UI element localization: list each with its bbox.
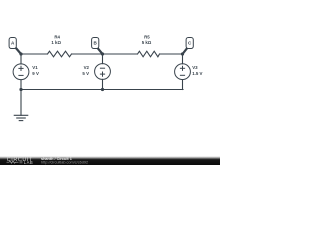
junction dot node A — [19, 52, 22, 55]
wire V3 to bottom rail — [182, 80, 184, 90]
svg-text:LAB: LAB — [24, 160, 33, 165]
node A flag — [9, 38, 21, 55]
CircuitLab logo LAB — [20, 161, 23, 164]
ground — [14, 115, 29, 120]
svg-text:5 V: 5 V — [82, 71, 89, 76]
svg-text:R4: R4 — [54, 34, 60, 39]
wire B to R5 — [103, 53, 138, 55]
label R4 1 kOhm — [51, 34, 61, 45]
wire A down to V1 — [20, 54, 22, 64]
junction dot node B — [101, 52, 104, 55]
wire R5 to C — [160, 53, 183, 55]
label V1 value 9 V — [32, 65, 39, 76]
wire B down to V2 — [102, 54, 104, 64]
resistor R4 — [48, 51, 72, 57]
wire C down to V3 — [182, 54, 184, 64]
wire V2 to bottom rail — [102, 79, 104, 89]
junction dot node C — [181, 52, 184, 55]
svg-text:V2: V2 — [84, 65, 90, 70]
wire R4 to B — [72, 53, 103, 55]
svg-text:http://circuitlab.com/c/c6d92: http://circuitlab.com/c/c6d92 — [41, 160, 88, 164]
svg-text:V1: V1 — [32, 65, 38, 70]
label V3 value 1.5 V — [192, 65, 202, 76]
node C flag — [183, 38, 194, 55]
label V2 value 5 V — [82, 65, 89, 76]
junction dot V1 ground — [19, 88, 22, 91]
label R5 5 kOhm — [142, 34, 152, 45]
node B flag — [92, 38, 103, 55]
svg-text:5 kΩ: 5 kΩ — [142, 40, 152, 45]
svg-text:R5: R5 — [144, 34, 150, 39]
junction dot V2 bottom — [101, 88, 104, 91]
wire V1 to bottom rail — [20, 80, 22, 90]
voltage source V3 — [175, 64, 191, 80]
svg-text:1 kΩ: 1 kΩ — [51, 40, 61, 45]
svg-text:9 V: 9 V — [32, 71, 39, 76]
wire ground stem — [20, 90, 22, 116]
voltage source V2 — [95, 64, 111, 80]
wire bottom rail — [21, 89, 183, 91]
voltage source V1 — [13, 64, 29, 80]
resistor R5 — [138, 51, 160, 57]
CircuitLab logo zigzag — [7, 161, 19, 163]
wire A to R4 — [21, 53, 48, 55]
svg-text:1.5 V: 1.5 V — [192, 71, 202, 76]
svg-text:V3: V3 — [192, 65, 198, 70]
